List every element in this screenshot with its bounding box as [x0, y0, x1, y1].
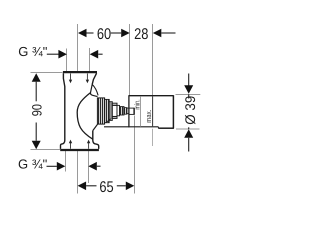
spindle knurled knob 2: [124, 108, 127, 115]
thread mark arrow top right: [86, 74, 89, 84]
dome fold line: [92, 84, 98, 95]
housing bottom line: [104, 126, 158, 128]
max line inside cap: [152, 96, 154, 126]
valve body outline: [60, 72, 111, 150]
spline block 3: [109, 102, 112, 121]
lower dome diagonal: [93, 124, 98, 130]
right side upper: [92, 73, 96, 84]
label G3/4 top: [18, 44, 102, 59]
spindle tip inside cap: [129, 108, 134, 115]
extension line x152 below cap: [152, 129, 154, 146]
svg-text:G ¾": G ¾": [18, 156, 48, 171]
spindle barrel: [112, 103, 117, 118]
extension line 90 top: [31, 72, 63, 74]
thread mark arrow top left: [69, 74, 72, 84]
spline block chamfer: [106, 118, 112, 123]
left side: [61, 73, 65, 149]
dimension 28: [134, 26, 175, 43]
extension line 90 bottom: [31, 149, 61, 151]
faint depth line inside cap: [140, 96, 142, 126]
cap right edge: [172, 95, 174, 128]
extension line centerline above valve: [77, 24, 79, 72]
extension line dia39 top: [176, 94, 201, 96]
bottom edge: [60, 149, 99, 151]
svg-text:28: 28: [134, 26, 148, 43]
svg-text:min.: min.: [132, 99, 141, 109]
svg-text:65: 65: [99, 179, 113, 196]
dimension 90: [29, 73, 44, 149]
cap top edge: [129, 95, 174, 97]
extension line x152 (max) above cap: [152, 24, 154, 96]
spindle step: [117, 105, 120, 115]
svg-text:max.: max.: [144, 110, 153, 123]
thread mark arrow bottom right: [87, 140, 90, 149]
thread mark arrow bottom left: [69, 140, 72, 149]
extension line x130 (cap face): [129, 24, 131, 95]
svg-text:90: 90: [29, 104, 44, 116]
protective cap box: [104, 95, 174, 128]
dimension 65: [78, 179, 135, 196]
threaded collar: [97, 98, 104, 124]
dimension dia 39: [182, 74, 198, 152]
spindle tiny step: [127, 108, 129, 113]
extension line dia39 bottom: [176, 128, 200, 130]
dome pocket left: [90, 84, 97, 96]
cap left edge (face): [128, 95, 130, 127]
extension line centerline below valve: [77, 151, 79, 194]
cap bottom step: [157, 127, 159, 129]
spline block 2: [105, 99, 110, 122]
spindle knurled knob: [120, 107, 125, 115]
dimension 60: [78, 26, 130, 43]
svg-text:60: 60: [97, 26, 112, 43]
top edge: [63, 71, 97, 73]
cap bottom right edge: [158, 127, 174, 129]
extension line bottom port left: [65, 151, 67, 172]
label G3/4 bottom: [18, 156, 101, 171]
extension line G3/4 top right port: [89, 48, 91, 72]
cartridge dome curve: [77, 93, 93, 140]
extension line min x134: [134, 116, 136, 194]
svg-text:Ø 39: Ø 39: [182, 96, 198, 125]
extension line G3/4 top left port: [66, 49, 68, 72]
right side lower: [93, 131, 99, 149]
extension line bottom port right: [88, 151, 90, 183]
svg-text:G ¾": G ¾": [18, 44, 48, 59]
